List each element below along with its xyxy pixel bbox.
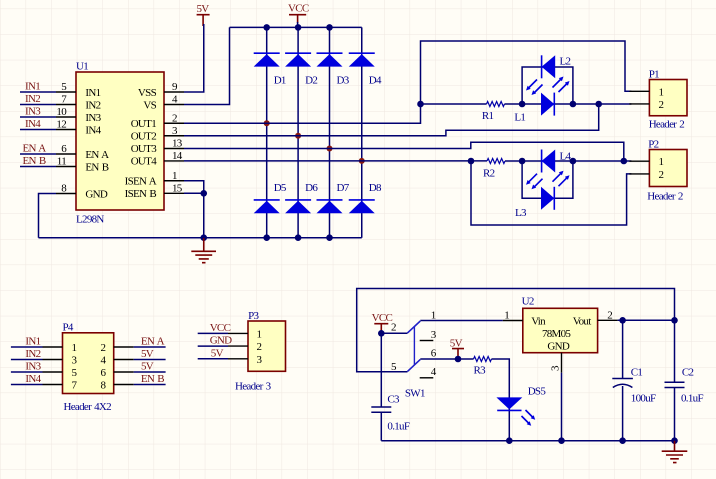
ground symbol power section [662,441,688,463]
wire EN B net (P4) [134,384,166,386]
wire top diode bus [230,26,362,28]
pin 7 P4 [43,384,63,386]
junction P2 pin1 node [621,158,628,165]
svg-text:1: 1 [504,310,509,322]
pin 14 OUT4 [164,160,184,162]
connector P2 body [649,150,687,187]
pin 2 U2 [598,319,618,321]
wire R1 to P1 pin2 [505,103,632,105]
svg-text:0.1uF: 0.1uF [681,392,703,404]
svg-text:VS: VS [143,99,156,111]
LED L1 arrows [529,80,543,94]
junction OUT1-R1 [417,101,424,108]
LED DS5 arrows [522,410,534,424]
svg-text:R1: R1 [482,110,494,122]
svg-text:D7: D7 [337,182,350,194]
wire VCC stub to bus [297,22,299,27]
wire EN A net [20,153,56,155]
svg-text:0.1uF: 0.1uF [387,421,409,433]
svg-text:5V: 5V [450,337,463,349]
wire OUT4 to R2 [184,160,487,162]
SECTION: headers [11,310,286,413]
svg-text:R3: R3 [474,365,487,377]
wire IN4 net (P4) [11,384,43,386]
svg-text:5V: 5V [141,348,154,360]
LED L3 [515,187,554,219]
junction OUT4-R2 [468,158,475,165]
svg-text:5V: 5V [211,347,224,359]
connector P3 body [248,321,286,371]
junction U2GND-bus [558,437,565,444]
capacitor C1 [612,367,656,405]
pin 1 U2 [503,320,523,322]
SECTION: diodes [254,24,382,241]
junction DS5-bus [506,437,513,444]
svg-text:78M05: 78M05 [542,328,571,340]
junction C2-bus [671,437,678,444]
svg-text:2: 2 [659,99,664,111]
junction VCC-SW1 [378,330,385,337]
wire GND net (P3) [198,345,228,347]
svg-text:5V: 5V [141,361,154,373]
svg-text:IN4: IN4 [85,124,101,136]
wire SW1 pin2 line [381,332,407,334]
svg-text:R2: R2 [483,168,495,180]
pin 1 P4 [43,346,63,348]
svg-text:IN2: IN2 [25,93,40,105]
svg-text:SW1: SW1 [405,387,425,399]
svg-text:VCC: VCC [210,322,231,334]
power port VCC top [288,3,309,23]
pin 2 P1 [629,103,649,105]
junction bottom bus col3 [326,234,333,241]
wire VS pin4 to top bus [184,27,230,104]
svg-text:GND: GND [85,188,107,200]
wire IN1 net (P4) [11,346,43,348]
svg-text:IN3: IN3 [85,112,101,124]
wire L3/L4 parallel arm [522,161,573,198]
svg-text:IN4: IN4 [25,373,41,385]
wire ISEN A route [184,181,204,194]
svg-text:2: 2 [391,322,396,334]
power port 5V (power section) [450,337,464,359]
ground symbol main [191,238,216,263]
pin 12 IN4 [56,129,76,131]
pin 4 VS [164,104,184,106]
svg-text:P4: P4 [63,322,74,334]
wire C1 top branch [622,320,624,378]
svg-text:2: 2 [607,309,612,321]
junction Vout-C1 [619,317,626,324]
wire IN1 net [20,91,56,93]
svg-text:1: 1 [431,309,436,321]
svg-text:12: 12 [56,119,66,131]
svg-text:D8: D8 [369,182,382,194]
svg-text:EN A: EN A [85,149,109,161]
svg-text:D2: D2 [305,75,317,87]
wire R3 to DS5 [492,359,510,441]
svg-text:5V: 5V [197,3,210,15]
wire P1 pin2 drop to OUT2 [184,104,599,136]
wire C1 bottom branch [622,386,624,441]
svg-text:L3: L3 [515,207,527,219]
LED DS5 [496,386,546,411]
wire OUT4 loop to P2 pin2 [471,161,631,225]
connector P4 body [63,333,114,394]
wire Vout line [618,319,675,321]
pin 13 OUT3 [164,148,184,150]
svg-text:L298N: L298N [76,214,104,226]
svg-text:OUT1: OUT1 [131,118,157,130]
pin 2 P2 [629,173,649,175]
svg-text:Header 2: Header 2 [649,119,685,131]
wire C2 top branch [674,320,676,382]
LED L1 [514,93,554,124]
svg-text:OUT4: OUT4 [131,156,158,168]
pin 3 OUT2 [164,135,184,137]
junction red OUT4-col4 [359,158,365,164]
SECTION: U1 driver [20,3,362,263]
svg-text:EN B: EN B [85,161,108,173]
capacitor C3 [371,394,410,433]
wire diode column 1 [266,27,268,237]
svg-text:2: 2 [172,112,177,124]
wire 5V net (P4 pin6) [134,371,166,373]
junction top bus col3 [326,24,333,31]
svg-text:EN B: EN B [23,155,46,167]
wire IN4 net [20,129,56,131]
svg-text:1: 1 [172,170,177,182]
svg-text:2: 2 [257,341,262,353]
svg-text:1: 1 [659,156,664,168]
pin 9 VSS [164,91,184,93]
svg-text:14: 14 [172,150,183,162]
svg-text:OUT2: OUT2 [131,131,157,143]
wire OUT1 branch to R1 [421,103,487,105]
power port VCC (power section) [372,312,393,333]
svg-text:D3: D3 [337,75,350,87]
wire U2 GND to bus [561,373,563,441]
svg-text:Vin: Vin [531,316,546,328]
junction bottom bus col1 [263,234,270,241]
wire 5V net (P3) [198,358,228,360]
svg-text:IN1: IN1 [25,336,40,348]
wire EN B net [20,166,56,168]
svg-text:11: 11 [57,156,66,168]
svg-text:VSS: VSS [138,87,157,99]
svg-text:1: 1 [257,328,262,340]
svg-text:10: 10 [56,106,67,118]
wire VCC net (P3) [198,332,228,334]
svg-text:U2: U2 [522,296,534,308]
pin 2 OUT1 [164,122,184,124]
wire OUT3 route to P2 pin1 [184,142,624,161]
diode D6 [285,182,318,213]
svg-text:13: 13 [172,138,183,150]
svg-text:Header 3: Header 3 [235,380,272,392]
svg-text:C1: C1 [631,367,643,379]
wire EN A net (P4) [134,346,166,348]
junction ISEN A/B [200,190,207,197]
svg-text:EN B: EN B [141,373,164,385]
pin 4 P4 [114,359,134,361]
junction bottom bus col2 [295,234,302,241]
pin 3 P3 [228,358,248,360]
wire IN2 net (P4) [11,359,43,361]
pin 3 U2 [561,353,563,373]
wire C2 bottom branch [674,388,676,441]
pin 6 P4 [114,371,134,373]
svg-text:Header 4X2: Header 4X2 [64,401,112,413]
diode D2 [285,53,317,86]
junction Vout-loop corner [671,317,678,324]
pin 8 GND [56,193,76,195]
junction top bus col1 [263,24,270,31]
resistor R2 [487,159,505,164]
LED L4 [542,150,572,173]
SECTION: power [357,289,704,463]
SECTION: motor nets [184,41,687,225]
wire R2 to P2 pin1 [505,160,631,162]
svg-text:OUT3: OUT3 [131,143,158,155]
junction red OUT3-col3 [327,146,333,152]
wire diode column 3 [329,27,331,237]
junction L1 left node [519,101,526,108]
svg-text:DS5: DS5 [528,386,547,398]
pin 6 EN A [56,153,76,155]
wire 5V feedback loop SW1 pin5 [357,289,675,372]
svg-text:P3: P3 [248,310,259,322]
svg-text:L2: L2 [560,56,571,68]
junction ISEN-ground bus [200,234,207,241]
svg-text:EN A: EN A [141,336,165,348]
svg-text:C3: C3 [387,394,400,406]
svg-text:IN4: IN4 [25,118,41,130]
wire C3 bottom branch [380,412,382,441]
pin 11 EN B [56,166,76,168]
diode D5 [254,182,287,213]
wire 5V net (P4 pin4) [134,359,166,361]
wire diode column 4 [361,27,363,237]
svg-text:1: 1 [72,342,77,354]
junction 5V-R3 line [455,356,462,363]
wire power ground bus [381,440,674,442]
svg-text:P1: P1 [649,69,659,81]
wire SW1 pin6 to R3 [420,358,473,360]
svg-text:15: 15 [172,182,183,194]
LED L4 arrows [553,173,568,186]
capacitor C2 [665,367,704,405]
resistor R1 [487,102,505,107]
svg-text:Vout: Vout [573,316,591,328]
regulator U2 body [523,308,598,352]
LED L3 arrows [529,174,543,188]
diode D3 [317,53,350,86]
svg-text:IN1: IN1 [85,87,100,99]
pin 1 P2 [629,160,649,162]
wire OUT1 route to P1 pin1 [184,41,631,123]
power port 5V top [197,3,210,26]
svg-text:D5: D5 [274,182,287,194]
svg-text:2: 2 [659,169,664,181]
svg-text:IN3: IN3 [25,106,41,118]
junction red OUT2-col2 [295,133,301,139]
LED L2 arrows [553,79,568,92]
svg-text:ISEN B: ISEN B [125,188,157,200]
svg-text:IN1: IN1 [25,81,40,93]
op-amp U1 body [76,72,164,210]
svg-text:EN A: EN A [23,143,47,155]
wire IN3 net (P4) [11,371,43,373]
pin 2 P3 [228,345,248,347]
wire IN3 net [20,116,56,118]
pin 5 IN1 [56,91,76,93]
pin 10 IN3 [56,116,76,118]
pin 5 P4 [43,371,63,373]
svg-text:Header 2: Header 2 [647,191,683,203]
diode D1 [254,53,286,86]
junction top bus col2/VCC [295,24,302,31]
pin 3 P4 [43,359,63,361]
svg-text:VCC: VCC [372,312,393,324]
svg-text:P2: P2 [648,139,658,151]
diode D8 [349,182,382,213]
wire C3 top branch [380,333,382,407]
diode D7 [317,182,350,213]
wire bottom ground bus [39,237,362,239]
pin 7 IN2 [56,104,76,106]
pin 1 P3 [228,332,248,334]
LED L2 [542,55,571,78]
pin 2 P4 [114,346,134,348]
pin 1 ISEN A [164,180,184,182]
svg-text:D1: D1 [274,75,286,87]
wire SW1 pin1 to U2 Vin [420,320,503,322]
wire pin9 to 5V [184,24,204,92]
switch SW1 [391,309,437,399]
svg-text:GND: GND [210,335,232,347]
pin 15 ISEN B [164,192,184,194]
junction red OUT1-col1 [264,120,270,126]
svg-text:IN2: IN2 [85,99,100,111]
svg-text:GND: GND [547,341,569,353]
svg-text:VCC: VCC [288,3,309,15]
resistor R3 [474,357,492,362]
pin 1 P1 [629,90,649,92]
svg-text:L4: L4 [560,151,572,163]
pin 8 P4 [114,384,134,386]
svg-text:L1: L1 [514,112,525,124]
wire ISEN B route [184,192,204,194]
junction C1-bus [619,437,626,444]
junction L4 left node [519,158,526,165]
wire L1/L2 parallel arm [522,67,573,104]
svg-text:ISEN A: ISEN A [125,176,157,188]
svg-text:IN2: IN2 [25,348,40,360]
svg-text:1: 1 [659,86,664,98]
connector P1 body [649,80,687,116]
junction L4 right node [570,158,577,165]
svg-text:D6: D6 [305,182,318,194]
svg-text:100uF: 100uF [631,392,656,404]
junction P1 pin2 node [595,101,602,108]
wire GND pin8 route to ground bus [39,194,57,238]
wire diode column 2 [297,27,299,237]
svg-text:IN3: IN3 [25,361,41,373]
svg-text:D4: D4 [369,75,382,87]
svg-text:U1: U1 [76,61,88,73]
diode D4 [349,53,382,86]
wire ISEN drop to ground bus [203,193,205,237]
wire IN2 net [20,104,56,106]
svg-text:C2: C2 [682,367,694,379]
svg-text:2: 2 [101,342,106,354]
junction L1 right node [570,101,577,108]
